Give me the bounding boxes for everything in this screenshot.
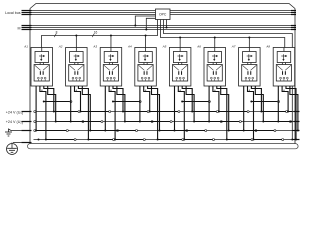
module A7 output wire 1 xyxy=(243,86,276,132)
left stub protective earth xyxy=(13,142,32,144)
bottom supply rails xyxy=(34,112,296,140)
module A4 input wire xyxy=(145,48,147,52)
module A8 output wire 2 xyxy=(282,86,292,113)
bus width mark 16 xyxy=(92,31,97,38)
module A1 pin label xyxy=(41,88,43,92)
distribution bus line A from OPC to modules A1-A4 xyxy=(42,20,158,48)
svg-text:A3: A3 xyxy=(92,45,97,49)
module A6 output wire 4 xyxy=(221,86,257,132)
module A5 output stage box xyxy=(173,65,188,82)
module A6 input wire xyxy=(214,48,216,52)
module A5 funnel xyxy=(173,65,187,70)
module A6 output wire 1 xyxy=(208,86,241,123)
OPC tap wire to M line 1 xyxy=(134,16,155,27)
module A4 terminal circles xyxy=(141,77,150,81)
module A8 xyxy=(273,48,295,87)
module A7 pin label xyxy=(249,88,251,92)
module A6 isolator glyph xyxy=(212,54,218,61)
module A6 terminal circles xyxy=(210,77,219,81)
module A5 output wire 4 xyxy=(186,86,222,123)
module A3 output wire 3 xyxy=(113,86,149,113)
local bus stubs xyxy=(22,11,32,15)
module A6 output stage box xyxy=(207,65,222,82)
card bottom edge xyxy=(28,144,299,149)
label +24 V (U2) xyxy=(6,120,23,125)
module A8 isolator box xyxy=(277,52,291,63)
module A7 terminal circles xyxy=(245,77,254,81)
module A4 output wire 1 xyxy=(139,86,172,123)
module A3 output wire 4 xyxy=(117,86,153,123)
module A3 output stage box xyxy=(103,65,118,82)
module A2 input wire xyxy=(75,48,77,52)
module A5 isolator glyph xyxy=(177,54,183,61)
M bus stubs xyxy=(22,26,32,30)
svg-text:+24 V (U2): +24 V (U2) xyxy=(6,120,23,125)
label +24 V (U1) xyxy=(6,110,23,115)
module A3 output wire 2 xyxy=(109,86,145,141)
module A7 output wire 4 xyxy=(255,86,291,123)
module A3 pin label xyxy=(110,88,112,92)
module A1 contact bars xyxy=(40,71,43,75)
module A8 contact bars xyxy=(283,71,286,75)
module A2 isolator box xyxy=(70,52,84,63)
module A1 xyxy=(31,48,53,87)
bottom rail right-edge stubs xyxy=(294,112,300,140)
module A3 isolator glyph xyxy=(108,54,114,61)
module A5 contact bars xyxy=(179,71,182,75)
module A7 jumper wire xyxy=(250,101,279,103)
right edge local bus stubs xyxy=(291,11,296,15)
module A4 isolator glyph xyxy=(143,54,149,61)
module A8 input wire xyxy=(283,48,285,52)
module A2 output wire 1 xyxy=(70,86,103,123)
module A5 inter-stage wires xyxy=(179,63,182,65)
svg-text:A1: A1 xyxy=(23,45,28,49)
module A5 jumper wire xyxy=(181,101,210,103)
label A1 xyxy=(23,45,28,49)
module A7 funnel xyxy=(242,65,256,70)
module A7 isolator glyph xyxy=(247,54,253,61)
protective earth symbol xyxy=(7,143,18,155)
module A5 pin label xyxy=(179,88,181,92)
module A3 xyxy=(100,48,122,87)
module A1 inter-stage wires xyxy=(40,63,43,65)
module A4 output wire 2 xyxy=(144,86,180,113)
svg-text:A8: A8 xyxy=(265,45,270,49)
module A2 output wire 2 xyxy=(75,86,111,113)
module A8 pin label xyxy=(283,88,285,92)
module A3 isolator box xyxy=(104,52,118,63)
module A6 funnel xyxy=(208,65,222,70)
module A3 inter-stage wires xyxy=(109,63,112,65)
module A3 input wire xyxy=(110,48,112,52)
module A4 contact bars xyxy=(144,71,147,75)
svg-text:A7: A7 xyxy=(231,45,236,49)
left stub +24V U1 rail xyxy=(22,111,32,113)
module A1 jumper wire xyxy=(43,101,72,103)
module A2 inter-stage wires xyxy=(75,63,78,65)
module A5 isolator box xyxy=(173,52,187,63)
module A7 xyxy=(239,48,261,87)
module A7 contact bars xyxy=(248,71,251,75)
local bus lines xyxy=(30,11,295,15)
module A2 isolator glyph xyxy=(74,54,80,61)
label M xyxy=(18,27,21,31)
module A5 output wire 2 xyxy=(178,86,214,141)
module A7 inter-stage wires xyxy=(248,63,251,65)
module A8 isolator glyph xyxy=(281,54,287,61)
module A2 output wire 3 xyxy=(78,86,114,141)
module A4 output wire 3 xyxy=(148,86,184,141)
module A5 output wire 3 xyxy=(182,86,218,113)
module A3 contact bars xyxy=(110,71,113,75)
module A2 output wire 4 xyxy=(82,86,118,132)
OPC tap wire to M line 3 xyxy=(145,18,155,30)
module A6 output wire 3 xyxy=(217,86,253,141)
module A8 output wire 3 xyxy=(286,86,297,141)
module A8 terminal circles xyxy=(280,77,289,81)
module A2 output stage box xyxy=(69,65,84,82)
module A7 output wire 3 xyxy=(251,86,287,113)
label Local bus xyxy=(5,11,21,15)
svg-text:OPC: OPC xyxy=(159,13,167,17)
module A1 output stage box xyxy=(34,65,49,82)
module A3 output wire 1 xyxy=(104,86,137,132)
module A8 funnel xyxy=(277,65,291,70)
M bus lines xyxy=(30,26,295,30)
module A5 terminal circles xyxy=(176,77,185,81)
module A1 isolator box xyxy=(35,52,49,63)
module A7 isolator box xyxy=(243,52,257,63)
module A2 contact bars xyxy=(75,71,78,75)
left stub signal ground rail xyxy=(11,130,32,132)
svg-text:Local bus: Local bus xyxy=(5,11,21,15)
OPC tap wire to M line 2 xyxy=(166,20,168,29)
module A3 funnel xyxy=(104,65,118,70)
module A7 output wire 2 xyxy=(248,86,284,141)
svg-text:8: 8 xyxy=(56,31,58,35)
module A8 output wire 4 xyxy=(290,86,299,132)
left stub +24V U2 rail xyxy=(22,121,32,123)
OPC box U1 xyxy=(156,9,171,20)
module A1 input wire xyxy=(41,48,43,52)
module A4 isolator box xyxy=(139,52,153,63)
svg-text:A2: A2 xyxy=(58,45,63,49)
module A1 output wire 4 xyxy=(48,86,84,123)
module A1 output wire 2 xyxy=(40,86,76,141)
module A2 xyxy=(66,48,88,87)
module A6 inter-stage wires xyxy=(213,63,216,65)
module A4 pin label xyxy=(145,88,147,92)
label A4 xyxy=(127,45,132,49)
svg-text:+24 V (U1): +24 V (U1) xyxy=(6,110,23,115)
module A3 jumper wire xyxy=(112,101,141,103)
module A1 output wire 3 xyxy=(44,86,80,113)
label A5 xyxy=(162,45,167,49)
module A6 output wire 2 xyxy=(213,86,249,113)
bottom rail start terminals xyxy=(34,111,40,141)
module A7 output stage box xyxy=(242,65,257,82)
module A4 output stage box xyxy=(138,65,153,82)
bus width mark 8 xyxy=(54,31,57,38)
module A4 xyxy=(135,48,157,87)
label OPC xyxy=(159,13,167,17)
module A8 output wire 1 xyxy=(277,86,292,123)
card frame xyxy=(30,4,295,145)
module A6 isolator box xyxy=(208,52,222,63)
module A8 inter-stage wires xyxy=(282,63,285,65)
svg-text:A5: A5 xyxy=(162,45,167,49)
label A7 xyxy=(231,45,236,49)
module A2 pin label xyxy=(76,88,78,92)
module A4 funnel xyxy=(139,65,153,70)
module A1 isolator glyph xyxy=(39,54,45,61)
distribution bus line B from OPC to modules A5-A8 xyxy=(161,20,285,48)
module A1 funnel xyxy=(35,65,49,70)
module A2 terminal circles xyxy=(72,77,81,81)
label A3 xyxy=(92,45,97,49)
module A3 terminal circles xyxy=(107,77,116,81)
module A1 terminal circles xyxy=(37,77,46,81)
module A8 output stage box xyxy=(276,65,291,82)
label A8 xyxy=(265,45,270,49)
module A4 inter-stage wires xyxy=(144,63,147,65)
module A6 pin label xyxy=(214,88,216,92)
module A1 output wire 1 xyxy=(35,86,68,132)
module A6 contact bars xyxy=(213,71,216,75)
module A7 input wire xyxy=(248,48,250,52)
right edge M bus stubs xyxy=(291,26,296,30)
distribution bus line C from OPC to bottom right xyxy=(164,20,294,141)
module A5 input wire xyxy=(179,48,181,52)
module A4 output wire 4 xyxy=(152,86,188,132)
label A2 xyxy=(58,45,63,49)
svg-text:A4: A4 xyxy=(127,45,132,49)
svg-text:16: 16 xyxy=(94,31,98,35)
signal ground symbol xyxy=(5,129,12,137)
svg-text:A6: A6 xyxy=(196,45,201,49)
module A5 output wire 1 xyxy=(174,86,207,132)
module A5 xyxy=(169,48,191,87)
module A6 xyxy=(204,48,226,87)
module A2 funnel xyxy=(69,65,83,70)
svg-text:M: M xyxy=(18,27,21,31)
label A6 xyxy=(196,45,201,49)
